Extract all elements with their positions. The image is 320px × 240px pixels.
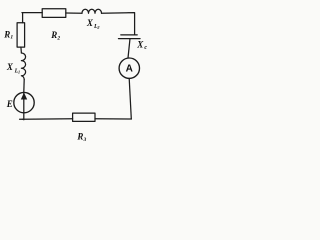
wire bottom left segment — [22, 118, 72, 121]
wire bottom right segment — [95, 118, 131, 120]
resistor R2 — [42, 9, 66, 18]
wire top left segment — [22, 12, 42, 14]
arrowhead of source E — [21, 93, 27, 100]
capacitor Xc bottom plate — [119, 38, 141, 40]
svg-text:1: 1 — [10, 35, 13, 41]
inductor XL2 — [82, 9, 102, 13]
svg-text:2: 2 — [96, 25, 99, 30]
wire arrow shaft through E — [23, 92, 25, 119]
wire R1 bottom stub — [20, 47, 23, 53]
svg-text:3: 3 — [83, 137, 87, 142]
svg-text:R: R — [3, 29, 10, 39]
wire ammeter to bottom right corner — [129, 78, 131, 119]
capacitor Xc top plate — [121, 34, 137, 36]
wire E top to XL1 — [23, 79, 25, 92]
svg-text:X: X — [6, 62, 14, 72]
inductor XL1 — [21, 53, 25, 79]
ammeter A circle — [119, 58, 139, 78]
svg-text:X: X — [86, 18, 94, 28]
svg-text:1: 1 — [18, 70, 20, 75]
svg-text:R: R — [76, 132, 83, 142]
resistor R1 — [17, 23, 25, 47]
wire R1 top stub — [22, 13, 24, 23]
resistor R3 — [73, 113, 95, 121]
svg-text:2: 2 — [56, 35, 60, 41]
svg-text:X: X — [136, 39, 144, 49]
source E circle — [14, 92, 34, 112]
svg-text:R: R — [50, 30, 57, 40]
svg-text:A: A — [126, 64, 133, 75]
wire R2 to XL2 — [66, 12, 82, 14]
svg-text:E: E — [6, 99, 13, 109]
wire XL2 to top right corner — [102, 13, 135, 35]
wire Xc to ammeter — [128, 39, 130, 58]
wire junction tick — [20, 118, 23, 120]
svg-text:c: c — [144, 45, 147, 51]
